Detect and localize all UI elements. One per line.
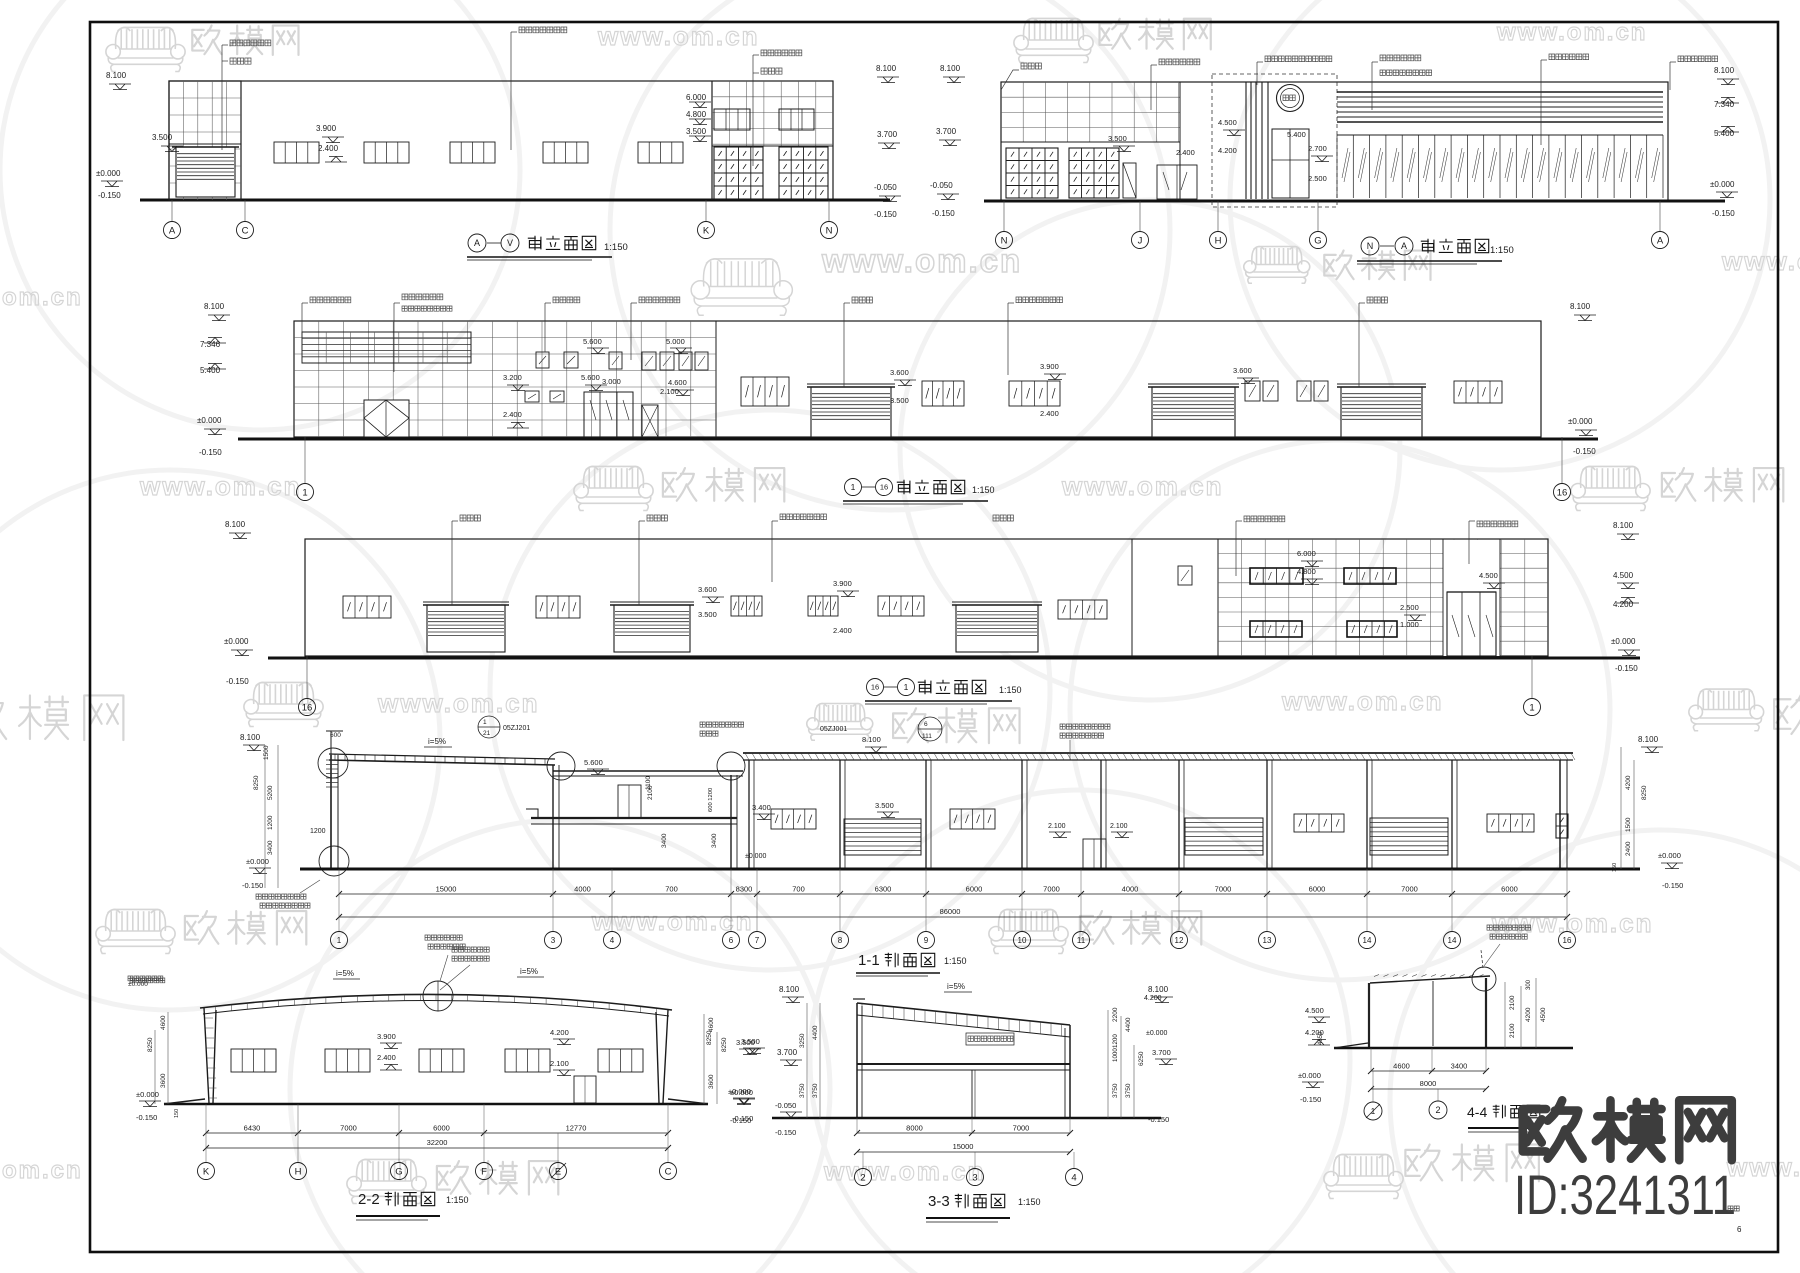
svg-text:7000: 7000 xyxy=(1401,885,1418,894)
svg-text:2.100: 2.100 xyxy=(1110,823,1128,830)
svg-text:2.400: 2.400 xyxy=(1176,148,1195,157)
svg-text:±0.000: ±0.000 xyxy=(246,857,269,866)
section 1-1: annotation above 2-2 xyxy=(452,947,489,952)
svg-text:4000: 4000 xyxy=(1122,885,1139,894)
svg-text:3.700: 3.700 xyxy=(777,1048,798,1057)
axis N xyxy=(1361,237,1379,255)
hatched window block xyxy=(1556,814,1568,838)
svg-text:6300: 6300 xyxy=(875,885,892,894)
svg-text:1:150: 1:150 xyxy=(999,685,1022,695)
svg-text:1:150: 1:150 xyxy=(446,1195,469,1205)
svg-text:2200: 2200 xyxy=(1112,1007,1119,1022)
section 3-3: columns xyxy=(856,1003,858,1117)
svg-text:±0.000: ±0.000 xyxy=(745,853,766,860)
axis 8 xyxy=(832,932,849,949)
axis 13 xyxy=(1259,932,1276,949)
svg-text:i=5%: i=5% xyxy=(336,969,354,978)
elevation 1-16: left curtain wall grid xyxy=(715,321,717,437)
elevation 16-1: entrance bay xyxy=(1443,540,1500,656)
svg-text:2.100: 2.100 xyxy=(660,387,679,396)
svg-text:3600: 3600 xyxy=(708,1074,715,1089)
svg-text:www.om.cn: www.om.cn xyxy=(1726,1152,1800,1182)
roller shutter door xyxy=(1341,387,1422,437)
svg-text:4: 4 xyxy=(610,936,615,945)
svg-text:6430: 6430 xyxy=(244,1124,261,1133)
axis 1 xyxy=(845,479,862,496)
axis 1 xyxy=(898,679,915,696)
svg-text:A: A xyxy=(474,238,480,248)
svg-text:8.100: 8.100 xyxy=(1613,521,1634,530)
svg-text:3.700: 3.700 xyxy=(936,127,957,136)
svg-text:www.om.cn: www.om.cn xyxy=(823,1156,986,1186)
svg-text:1200: 1200 xyxy=(1112,1034,1119,1048)
svg-text:111: 111 xyxy=(922,733,932,740)
svg-text:3.500: 3.500 xyxy=(890,396,909,405)
elevation 1-16: leader labels xyxy=(301,303,303,363)
svg-text:7: 7 xyxy=(755,936,760,945)
svg-text:K: K xyxy=(203,1166,210,1177)
elevation N-A: right glazing panels xyxy=(1337,134,1663,136)
svg-text:3.500: 3.500 xyxy=(875,801,894,810)
svg-text:1:150: 1:150 xyxy=(1490,245,1514,256)
window xyxy=(922,381,964,406)
svg-text:12: 12 xyxy=(1175,936,1184,945)
svg-text:5.600: 5.600 xyxy=(581,373,600,382)
svg-text:3250: 3250 xyxy=(799,1033,806,1048)
svg-text:3750: 3750 xyxy=(1125,1083,1132,1098)
window xyxy=(771,809,816,829)
svg-text:±0.000: ±0.000 xyxy=(224,637,249,646)
window xyxy=(419,1049,464,1072)
svg-text:2.500: 2.500 xyxy=(1400,603,1419,612)
section 2-2: top annotations xyxy=(130,978,165,983)
svg-text:±0.000: ±0.000 xyxy=(1568,417,1593,426)
axis G xyxy=(1310,232,1327,249)
hatched window block xyxy=(1006,148,1058,198)
svg-text:4.800: 4.800 xyxy=(1297,567,1316,576)
svg-text:V: V xyxy=(507,238,513,248)
svg-text:1200: 1200 xyxy=(267,815,274,830)
svg-text:1:150: 1:150 xyxy=(972,485,995,495)
section 4-4: dims below xyxy=(1371,1070,1486,1072)
section 1-1: second floor slab xyxy=(531,817,737,819)
svg-text:3.200: 3.200 xyxy=(503,373,522,382)
window xyxy=(741,377,789,406)
svg-text:1500: 1500 xyxy=(1625,817,1632,832)
roller shutter door xyxy=(811,387,891,437)
big logo omwang xyxy=(1523,1100,1583,1158)
svg-text:1: 1 xyxy=(904,682,909,692)
svg-text:8.100: 8.100 xyxy=(1570,302,1591,311)
svg-text:2: 2 xyxy=(1435,1105,1440,1115)
svg-text:K: K xyxy=(703,225,710,236)
window xyxy=(343,596,391,618)
axis N xyxy=(996,232,1013,249)
svg-text:±0.000: ±0.000 xyxy=(197,416,222,425)
svg-text:www.om.cn: www.om.cn xyxy=(1281,686,1444,716)
svg-text:A: A xyxy=(1401,241,1407,251)
svg-text:6000: 6000 xyxy=(966,885,983,894)
svg-text:5200: 5200 xyxy=(267,785,274,800)
svg-text:150: 150 xyxy=(174,1109,180,1118)
axis 16 xyxy=(867,679,884,696)
svg-text:9: 9 xyxy=(924,936,929,945)
section 1-1: left frame xyxy=(330,755,332,868)
svg-text:6.000: 6.000 xyxy=(1297,549,1316,558)
svg-text:5.400: 5.400 xyxy=(200,366,221,375)
svg-text:15000: 15000 xyxy=(953,1142,974,1151)
svg-text:8250: 8250 xyxy=(706,1030,713,1045)
svg-text:±0.000: ±0.000 xyxy=(1298,1071,1321,1080)
svg-text:8250: 8250 xyxy=(1641,785,1648,800)
svg-text:14: 14 xyxy=(1363,936,1372,945)
elevation 16-1: entrance door xyxy=(1447,592,1496,656)
hatched window block xyxy=(1069,148,1119,198)
svg-text:2.100: 2.100 xyxy=(1048,823,1066,830)
svg-text:1100: 1100 xyxy=(645,776,652,790)
elevation A-C: ground line xyxy=(140,199,890,202)
svg-text:4200: 4200 xyxy=(1625,775,1632,790)
svg-text:300: 300 xyxy=(1526,979,1532,990)
svg-text:2.100: 2.100 xyxy=(550,1059,569,1068)
axis 3 xyxy=(545,932,562,949)
svg-text:8.100: 8.100 xyxy=(204,302,225,311)
svg-text:5.400: 5.400 xyxy=(1287,130,1306,139)
svg-text:3400: 3400 xyxy=(1451,1062,1468,1071)
svg-text:16: 16 xyxy=(880,483,888,492)
svg-text:www.om.cn: www.om.cn xyxy=(821,242,1022,279)
svg-text:4400: 4400 xyxy=(812,1025,819,1040)
roller shutter door xyxy=(614,605,690,652)
elevation 1-16: ground xyxy=(238,438,1598,441)
window xyxy=(638,142,683,163)
axis 14 xyxy=(1444,932,1461,949)
axis A xyxy=(164,222,181,239)
section 1-1: right hall roof xyxy=(743,752,1573,754)
section 4-4: detail circle xyxy=(1472,967,1496,991)
elevation 16-1: divider xyxy=(1131,539,1133,656)
elevation 1-16: louvre band xyxy=(302,332,471,363)
section 3-3: text box xyxy=(966,1033,1014,1045)
roller shutter door xyxy=(1152,387,1235,437)
svg-text:4.500: 4.500 xyxy=(1305,1006,1324,1015)
svg-text:3.600: 3.600 xyxy=(890,368,909,377)
window xyxy=(364,142,409,163)
svg-text:±0.000: ±0.000 xyxy=(1658,851,1681,860)
svg-text:±0.000: ±0.000 xyxy=(96,169,121,178)
axis 1 xyxy=(1364,1102,1382,1120)
section 1-1: axes circles xyxy=(338,894,340,931)
elevation 1-16: showroom doors xyxy=(584,392,633,437)
axis 4 xyxy=(604,932,621,949)
svg-text:4600: 4600 xyxy=(160,1015,167,1030)
section 2-2: dim chains xyxy=(206,1132,668,1134)
elevation N-A: outline xyxy=(1001,82,1668,201)
svg-text:-0.150: -0.150 xyxy=(1615,664,1638,673)
svg-text:11: 11 xyxy=(1077,936,1086,945)
svg-text:-0.050: -0.050 xyxy=(775,1101,796,1110)
section 4-4: roof xyxy=(1370,976,1490,983)
svg-text:6000: 6000 xyxy=(1501,885,1518,894)
axis 1 xyxy=(1524,699,1541,716)
svg-text:C: C xyxy=(665,1166,672,1177)
svg-text:6000: 6000 xyxy=(1309,885,1326,894)
svg-text:H: H xyxy=(295,1166,302,1177)
section 2-2: columns xyxy=(204,1008,216,1103)
svg-text:1-1: 1-1 xyxy=(858,952,880,969)
section 3-3: mid beam xyxy=(857,1063,1070,1065)
svg-text:3600: 3600 xyxy=(160,1073,167,1088)
svg-text:13: 13 xyxy=(1263,936,1272,945)
svg-text:4000: 4000 xyxy=(574,885,591,894)
section 3-3: dim chain xyxy=(857,1132,1070,1134)
svg-text:±0.000: ±0.000 xyxy=(1146,1030,1167,1037)
svg-text:ID:3241311: ID:3241311 xyxy=(1514,1163,1736,1226)
section 4-4: ground xyxy=(1334,1047,1573,1049)
svg-text:1: 1 xyxy=(851,482,856,492)
svg-text:-0.150: -0.150 xyxy=(874,210,897,219)
svg-text:700: 700 xyxy=(665,885,678,894)
svg-text:1:150: 1:150 xyxy=(1018,1197,1041,1207)
svg-text:3750: 3750 xyxy=(1112,1083,1119,1098)
svg-text:4650: 4650 xyxy=(1318,1031,1324,1045)
section 2-2: right dims xyxy=(703,1014,705,1104)
svg-text:F: F xyxy=(481,1166,487,1177)
svg-text:8.100: 8.100 xyxy=(876,64,897,73)
axis 16 xyxy=(1559,932,1576,949)
axis 10 xyxy=(1014,932,1031,949)
svg-text:3.900: 3.900 xyxy=(1040,362,1059,371)
elevation 1-16: outline xyxy=(294,321,1541,437)
svg-text:G: G xyxy=(1314,235,1321,246)
svg-text:3.900: 3.900 xyxy=(316,124,337,133)
svg-text:4.500: 4.500 xyxy=(1613,571,1634,580)
svg-text:N: N xyxy=(1001,235,1008,246)
svg-text:i=5%: i=5% xyxy=(428,737,446,746)
axis K xyxy=(698,222,715,239)
svg-text:-0.050: -0.050 xyxy=(874,183,897,192)
svg-text:4: 4 xyxy=(1071,1172,1076,1183)
svg-text:14: 14 xyxy=(1448,936,1457,945)
svg-text:8250: 8250 xyxy=(721,1037,728,1052)
svg-text:4600: 4600 xyxy=(708,1017,715,1032)
svg-text:A: A xyxy=(1657,235,1664,246)
svg-text:www.om.cn: www.om.cn xyxy=(1061,471,1224,501)
svg-text:2.400: 2.400 xyxy=(318,144,339,153)
svg-text:3750: 3750 xyxy=(812,1083,819,1098)
svg-text:8.100: 8.100 xyxy=(1638,735,1659,744)
section 1-1: sloped roof left xyxy=(329,760,555,765)
section 3-3: ground xyxy=(772,1117,1161,1120)
elevation 16-1: right curtain wall grid xyxy=(1217,539,1219,656)
svg-text:3.900: 3.900 xyxy=(833,579,852,588)
svg-text:1200: 1200 xyxy=(310,828,326,835)
window xyxy=(1454,381,1502,403)
svg-text:J: J xyxy=(1138,235,1143,246)
svg-text:7.346: 7.346 xyxy=(200,340,221,349)
svg-text:3.400: 3.400 xyxy=(752,803,771,812)
svg-text:3.500: 3.500 xyxy=(1108,134,1127,143)
window xyxy=(808,596,838,616)
svg-text:3.500: 3.500 xyxy=(686,127,707,136)
axis 1 xyxy=(331,932,348,949)
elevation N-A: top labels xyxy=(1021,63,1041,69)
svg-text:8250: 8250 xyxy=(147,1037,154,1052)
svg-text:1: 1 xyxy=(483,719,487,726)
svg-text:3400: 3400 xyxy=(711,833,718,848)
svg-text:1: 1 xyxy=(302,487,307,498)
svg-text:www.om.cn: www.om.cn xyxy=(597,21,760,51)
axis K xyxy=(198,1163,215,1180)
axis H xyxy=(290,1163,307,1180)
svg-text:www.om.cn: www.om.cn xyxy=(377,688,540,718)
svg-text:om.cn: om.cn xyxy=(2,1157,83,1184)
svg-text:1: 1 xyxy=(337,936,342,945)
svg-text:1.000: 1.000 xyxy=(1400,620,1419,629)
svg-text:700: 700 xyxy=(792,885,805,894)
axis 16 xyxy=(299,699,316,716)
svg-text:2100: 2100 xyxy=(1509,1023,1516,1038)
axis H xyxy=(1210,232,1227,249)
svg-text:1:150: 1:150 xyxy=(944,956,967,966)
svg-text:8.100: 8.100 xyxy=(240,733,261,742)
svg-text:±0.000: ±0.000 xyxy=(728,1087,751,1096)
svg-text:4500: 4500 xyxy=(1540,1007,1547,1022)
svg-text:G: G xyxy=(395,1166,402,1177)
section 2-2: axes xyxy=(205,1133,207,1162)
section 3-3: axes xyxy=(862,1152,864,1168)
svg-text:86000: 86000 xyxy=(940,907,961,916)
elevation A-C: left tower curtain wall xyxy=(169,81,241,200)
svg-text:4.200: 4.200 xyxy=(1613,600,1634,609)
svg-text:3.600: 3.600 xyxy=(698,585,717,594)
svg-text:2-2: 2-2 xyxy=(358,1191,380,1208)
elevation A-C: leader labels xyxy=(221,45,223,150)
window xyxy=(536,596,580,618)
axis 12 xyxy=(1171,932,1188,949)
elevation 16-1: leaders xyxy=(451,521,453,605)
section 2-2: arched roof xyxy=(200,994,672,1010)
svg-text:4.800: 4.800 xyxy=(686,110,707,119)
window xyxy=(598,1049,643,1072)
svg-text:2100: 2100 xyxy=(1509,995,1516,1010)
svg-text:8.100: 8.100 xyxy=(106,71,127,80)
elevation 1-16: axes xyxy=(304,437,306,483)
svg-text:3400: 3400 xyxy=(267,840,274,855)
svg-text:8.100: 8.100 xyxy=(1714,66,1735,75)
section 2-2: left dims xyxy=(167,1012,169,1104)
svg-text:-0.150: -0.150 xyxy=(242,881,263,890)
elevation A-C roller door xyxy=(176,147,235,197)
axis 14 xyxy=(1359,932,1376,949)
section 1-1: right hall columns xyxy=(748,760,750,868)
section 4-4: right dims xyxy=(1504,982,1506,1048)
svg-text:2.700: 2.700 xyxy=(1308,144,1327,153)
svg-text:8.100: 8.100 xyxy=(862,735,881,744)
svg-text:4.500: 4.500 xyxy=(1218,118,1237,127)
svg-text:2.500: 2.500 xyxy=(1308,174,1327,183)
section 1-1: detail circles xyxy=(318,748,348,778)
svg-text:3.700: 3.700 xyxy=(877,130,898,139)
section 2-2: ground xyxy=(164,1103,708,1106)
axis E xyxy=(550,1163,567,1180)
svg-text:-0.150: -0.150 xyxy=(226,677,249,686)
watermark tiles xyxy=(106,27,185,71)
section 1-1: interior door xyxy=(618,785,641,818)
axis 16 xyxy=(1554,484,1571,501)
elevation N-A: ground line xyxy=(984,200,1725,203)
elevation 1-16: showroom door xyxy=(364,400,409,437)
section 4-4: columns xyxy=(1368,983,1370,1048)
svg-text:N: N xyxy=(1367,241,1374,251)
svg-text:3-3: 3-3 xyxy=(928,1193,950,1210)
section 1-1: ground xyxy=(300,868,1640,871)
svg-text:8000: 8000 xyxy=(906,1124,923,1133)
axis V xyxy=(501,234,519,252)
roller shutter door xyxy=(427,605,505,652)
svg-text:1: 1 xyxy=(1529,702,1534,713)
window xyxy=(505,1049,550,1072)
svg-text:2: 2 xyxy=(860,1172,865,1183)
svg-text:3.000: 3.000 xyxy=(602,377,621,386)
svg-text:4.200: 4.200 xyxy=(1144,995,1162,1002)
axis A xyxy=(1395,237,1413,255)
svg-text:om.cn: om.cn xyxy=(2,284,83,311)
svg-text:7000: 7000 xyxy=(1215,885,1232,894)
svg-text:5.000: 5.000 xyxy=(666,337,685,346)
axis J xyxy=(1132,232,1149,249)
axis C xyxy=(237,222,254,239)
svg-text:6.000: 6.000 xyxy=(686,93,707,102)
window xyxy=(274,142,319,163)
svg-text:6250: 6250 xyxy=(1138,1051,1145,1066)
svg-text:8.100: 8.100 xyxy=(1148,985,1169,994)
elevation N-A: doors left xyxy=(1123,163,1136,198)
svg-text:www.om.cn: www.om.cn xyxy=(139,471,302,501)
window xyxy=(731,596,762,616)
svg-text:15000: 15000 xyxy=(436,885,457,894)
elevation N-A: entrance, dashed detail box xyxy=(1212,74,1337,207)
axis 1 xyxy=(297,484,314,501)
window xyxy=(878,596,924,616)
section 4-4: leader from roof xyxy=(1487,925,1531,930)
svg-text:2.400: 2.400 xyxy=(833,626,852,635)
svg-text:-0.150: -0.150 xyxy=(1300,1095,1321,1104)
svg-text:±0.000: ±0.000 xyxy=(1710,180,1735,189)
svg-text:12770: 12770 xyxy=(566,1124,587,1133)
section 1-1: dim chain xyxy=(339,893,1567,895)
svg-text:10: 10 xyxy=(1018,936,1027,945)
svg-text:32200: 32200 xyxy=(427,1138,448,1147)
svg-text:150: 150 xyxy=(1612,863,1618,872)
svg-text:8: 8 xyxy=(838,936,843,945)
svg-text:i=5%: i=5% xyxy=(947,982,965,991)
svg-text:-0.150: -0.150 xyxy=(1662,881,1683,890)
window xyxy=(1058,600,1107,619)
svg-text:C: C xyxy=(242,225,249,236)
elevation N-A: entrance door xyxy=(1272,129,1309,198)
axis 2 xyxy=(855,1169,872,1186)
axis 2 xyxy=(1429,1101,1447,1119)
svg-text:-0.150: -0.150 xyxy=(199,448,222,457)
elevation A-C: right grid section xyxy=(711,81,713,200)
elevation N-A: circular emblem xyxy=(1277,85,1304,112)
svg-text:16: 16 xyxy=(302,702,313,713)
svg-text:3.500: 3.500 xyxy=(736,1038,755,1047)
svg-text:-0.150: -0.150 xyxy=(1148,1115,1169,1124)
elevation 1-16: mid windows xyxy=(536,352,549,368)
svg-text:-0.050: -0.050 xyxy=(930,181,953,190)
